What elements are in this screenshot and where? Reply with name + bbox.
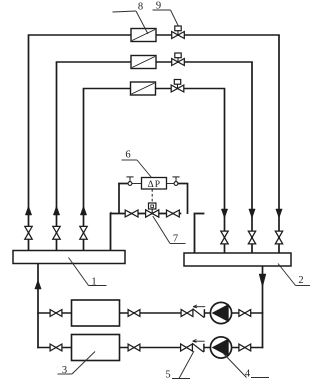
label 5 (balancing valve) [172,378,190,380]
circulation pump 4 (row 2) [210,337,231,358]
svg-text:2: 2 [298,275,303,286]
wire: supply riser 3 (left vertical) [83,89,85,251]
wire: bypass right leg down to manifold 2 [194,213,196,253]
label 4 (pump) [251,377,269,379]
heat exchanger 8 (circuit 1) [131,29,156,42]
svg-text:ΔP: ΔP [148,180,161,190]
label 6 (dp controller) [122,159,138,161]
balancing valve 5 (row 2) [181,344,187,351]
wire: return drop 1 (right vertical) [278,35,280,253]
wire: source row 2 pipe [37,347,181,349]
pressure test point (right tap) [175,177,177,182]
flow arrow down, return drop 1 [276,209,282,218]
shut-off valve on riser 2 [53,226,60,232]
circulation pump 4 (row 1) [210,302,231,323]
control valve 9 with actuator (circuit 2) [177,56,179,63]
control valve 9 with actuator (circuit 3) [177,82,179,89]
wire: circuit 2 horizontal pipe [56,61,253,63]
wire: left impulse tap line [118,183,120,214]
return manifold 2 [184,253,291,266]
wire: bypass pipe [110,212,113,214]
wire: right impulse tap line [167,183,175,185]
flow arrow up, riser 3 [80,206,86,215]
shut-off valve after pump (row 2) [239,344,245,351]
shut-off valve, source row 2 outlet [128,344,134,351]
shut-off valve on return drop 1 [275,231,282,237]
wire: supply riser 1 (left vertical) [28,35,30,251]
control valve 9 with actuator (circuit 1) [177,29,179,36]
svg-text:6: 6 [125,150,130,161]
wire: return drop 3 (right vertical) [224,89,226,254]
svg-text:4: 4 [245,368,251,379]
wire: return drop 2 (right vertical) [251,62,253,253]
wire: supply riser 2 (left vertical) [56,62,58,251]
isolating valve right of bypass valve [167,210,173,217]
label 9 (control valve) [153,9,171,11]
heat exchanger 8 (circuit 3) [131,82,156,95]
shut-off valve on riser 3 [80,226,87,232]
flow arrow up, riser 2 [53,206,59,215]
flow arrow down, return drop 3 [221,209,227,218]
dashed control signal line [151,189,153,203]
heat exchanger 8 (circuit 2) [131,56,156,69]
shut-off valve, source row 2 inlet [50,344,56,351]
label 7 (bypass valve) [153,216,170,244]
label 1 (supply manifold) [69,258,89,286]
label 3 (heat source) [58,373,73,375]
shut-off valve, source row 1 inlet [50,310,56,317]
label 2 (return manifold) [278,264,296,286]
shut-off valve after pump (row 1) [239,310,245,317]
heat source 3 (row 2) [72,335,120,361]
actuated bypass valve 7 [149,203,156,209]
wire: manifold 2 bottom return pipe [262,266,264,348]
flow arrow up into manifold 1 [35,280,41,289]
label 8 (heat exchanger) [113,11,137,12]
wire: bypass left leg down to manifold 1 [110,214,112,251]
wire: source row 1 pipe [37,312,181,314]
svg-text:7: 7 [173,233,178,244]
wire: manifold 1 bottom feed pipe [37,264,39,349]
shut-off valve on return drop 3 [221,231,228,237]
svg-text:1: 1 [91,276,96,287]
wire: circuit 3 horizontal pipe [83,88,226,90]
isolating valve left of bypass valve [125,210,131,217]
differential pressure controller 6 (ΔP box) [142,178,167,190]
svg-text:3: 3 [62,365,67,376]
flow arrow up, riser 1 [25,206,31,215]
svg-text:8: 8 [138,1,143,12]
shut-off valve on riser 1 [25,226,32,232]
balancing valve 5 (row 1) [181,310,187,317]
pressure test point (left tap) [129,177,131,182]
svg-text:9: 9 [156,1,161,12]
wire: circuit 1 horizontal pipe [28,34,280,36]
shut-off valve, source row 1 outlet [128,310,134,317]
flow arrow down, return drop 2 [249,209,255,218]
svg-text:5: 5 [165,369,170,380]
flow arrow down from manifold 2 [259,274,266,287]
heat source 3 (row 1) [72,300,120,326]
shut-off valve on return drop 2 [248,231,255,237]
supply manifold 1 [13,251,125,264]
